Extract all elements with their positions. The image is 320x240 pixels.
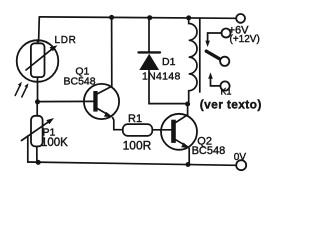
relay armature [206, 51, 221, 60]
wire Q2 emitter to bottom rail [188, 148, 190, 164]
svg-text:D1: D1 [162, 56, 176, 68]
node A junction dot [35, 99, 40, 104]
wire P1 wiper to bottom rail [27, 136, 29, 162]
wire P1 bottom [36, 146, 38, 162]
svg-text:100R: 100R [123, 138, 152, 152]
svg-text:R1: R1 [128, 113, 142, 125]
svg-text:BC548: BC548 [64, 75, 96, 87]
LDR [17, 40, 59, 82]
wire R1 to Q2 base [152, 129, 171, 131]
potentiometer P1 [22, 116, 55, 147]
relay NC contact wire [211, 79, 221, 86]
light arrow 1 [15, 82, 22, 96]
resistor R1 [123, 124, 153, 136]
relay NC terminal [220, 81, 229, 90]
relay NO contact arrow [205, 41, 210, 47]
svg-text:100K: 100K [41, 137, 68, 149]
wire node A to P1 [36, 102, 38, 116]
node B junction dot [36, 160, 41, 165]
svg-text:K1: K1 [221, 87, 232, 97]
svg-text:1N4148: 1N4148 [142, 71, 181, 83]
wire bottom rail [28, 162, 236, 165]
relay NO contact wire [208, 33, 222, 41]
svg-text:(+12V): (+12V) [230, 34, 260, 45]
svg-text:BC548: BC548 [192, 145, 226, 157]
node C junction dot [185, 102, 190, 107]
junction dot top rail Q1 [109, 15, 114, 20]
junction dot top rail relay [186, 15, 191, 20]
terminal +6V [236, 14, 245, 23]
wire Q2 collector [187, 104, 189, 115]
svg-text:LDR: LDR [55, 35, 77, 46]
wire LDR bottom to node A [37, 82, 39, 102]
terminal 0V [236, 160, 246, 170]
light arrow 2 [22, 83, 29, 97]
wire D1 anode to node C [149, 70, 188, 104]
relay NC contact arrow [208, 72, 213, 78]
wire Q1 collector to top rail [111, 17, 113, 86]
relay armature terminal [220, 57, 229, 66]
relay core line [199, 18, 201, 92]
diode D1 [139, 52, 161, 70]
svg-text:0V: 0V [234, 152, 247, 163]
relay NO terminal [222, 29, 231, 38]
wire Q1 emitter to R1 [113, 118, 123, 130]
junction dot bottom rail Q2 [186, 162, 191, 167]
transistor Q2 [161, 114, 197, 150]
wire D1 cathode [148, 18, 150, 52]
wire node A to Q1 base [38, 100, 94, 102]
transistor Q1 [84, 84, 119, 119]
junction dot top rail D1 [147, 15, 152, 20]
svg-text:(ver texto): (ver texto) [200, 98, 262, 112]
wire LDR top branch [38, 17, 41, 42]
wire top supply rail [40, 17, 237, 18]
relay K1 coil [189, 18, 197, 104]
